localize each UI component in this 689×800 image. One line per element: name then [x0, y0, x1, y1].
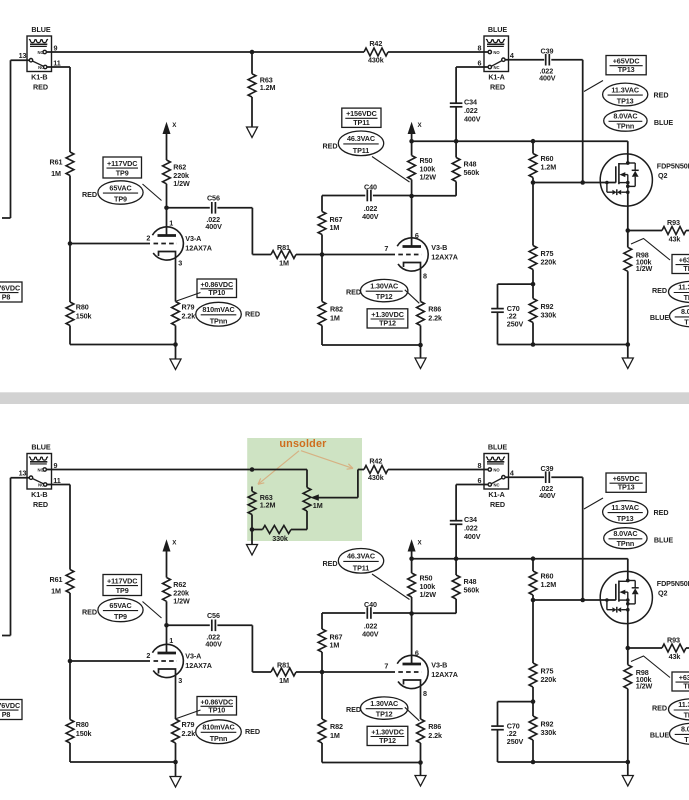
node B+ rail junction — [409, 556, 414, 561]
resistor R98 — [627, 648, 629, 665]
svg-text:150k: 150k — [76, 312, 92, 321]
svg-text:1.30VAC: 1.30VAC — [370, 699, 398, 708]
voltage callout +76VDC TP8 (cut off) — [0, 282, 22, 302]
resistor R67 — [321, 196, 323, 212]
svg-text:C39: C39 — [541, 46, 554, 55]
resistor R67 — [321, 613, 323, 629]
node gate rail junction 2 — [580, 180, 585, 185]
relay K1-A switch arm — [491, 478, 502, 484]
wire left edge jog — [2, 217, 11, 219]
wire pin 11 to R61 — [47, 484, 70, 486]
svg-text:TP9: TP9 — [114, 195, 127, 204]
ground R63 — [247, 127, 258, 138]
wire R48 bottom to plate node — [412, 195, 457, 197]
supply arrow X node — [163, 122, 171, 134]
node R92 ground junction — [531, 342, 536, 347]
wire R80 to ground rail — [69, 743, 71, 762]
node V3-A ground junction — [173, 760, 178, 765]
voltage callout +76VDC TP8 (cut off) — [0, 700, 22, 720]
svg-text:R61: R61 — [50, 575, 63, 584]
svg-text:8.0VAC: 8.0VAC — [681, 307, 689, 316]
wire ground rail right — [498, 761, 628, 763]
svg-text:8: 8 — [478, 43, 482, 52]
resistor R79 — [172, 719, 180, 743]
svg-text:Q2: Q2 — [658, 588, 667, 597]
wire R63 to ground — [251, 515, 253, 545]
triode V3-A envelope — [152, 227, 183, 260]
svg-text:TP11: TP11 — [353, 146, 369, 155]
svg-text:11.3VAC: 11.3VAC — [611, 503, 639, 512]
svg-text:1/2W: 1/2W — [420, 590, 437, 599]
wire R61 to grid node — [69, 176, 71, 244]
resistor R93 — [628, 647, 662, 649]
svg-text:7: 7 — [384, 661, 388, 670]
svg-text:TP13: TP13 — [617, 96, 634, 105]
svg-text:12AX7A: 12AX7A — [185, 244, 212, 253]
svg-text:FDP5N50N: FDP5N50N — [657, 162, 689, 171]
pointer 1.30VAC to cathode — [405, 707, 420, 721]
resistor R82 — [321, 672, 323, 719]
svg-text:R81: R81 — [277, 661, 290, 670]
svg-text:1M: 1M — [279, 676, 289, 685]
V3-B grid dashes pin 7 — [398, 671, 422, 673]
node gate rail junction 2 — [580, 598, 585, 603]
svg-text:1/2W: 1/2W — [173, 179, 190, 188]
Q2 gate bar — [615, 166, 617, 182]
svg-text:1M: 1M — [330, 314, 340, 323]
svg-text:13: 13 — [19, 469, 27, 478]
svg-text:+117VDC: +117VDC — [107, 576, 137, 585]
wire drain — [627, 141, 629, 164]
resistor R61 — [66, 152, 74, 176]
resistor R86 — [417, 719, 425, 743]
wire pin 4 to C39 — [505, 476, 544, 478]
V3-A plate bar pin 1 — [158, 234, 177, 237]
testpoint callout 46.3VAC TP11 — [338, 131, 383, 156]
triode V3-A envelope — [152, 644, 183, 677]
wire R62 to plate — [166, 184, 168, 236]
V3-A cathode pin 3 — [159, 252, 176, 302]
svg-text:X: X — [172, 122, 177, 129]
svg-text:TP10: TP10 — [208, 705, 225, 714]
svg-text:1/2W: 1/2W — [636, 682, 653, 691]
svg-text:V3-B: V3-B — [431, 243, 447, 252]
wire pin 6 to C34 — [456, 484, 488, 486]
separator band — [0, 392, 689, 404]
Q2 source vertical — [627, 175, 629, 193]
svg-text:11.3VAC: 11.3VAC — [678, 283, 689, 292]
svg-text:1.2M: 1.2M — [260, 500, 276, 509]
svg-text:V3-A: V3-A — [185, 234, 201, 243]
relay K1-B switch arm — [32, 479, 43, 484]
svg-text:NC: NC — [493, 483, 499, 488]
node V3-A plate junction — [164, 206, 169, 211]
wire R86 to ground rail — [420, 326, 422, 346]
node V3-B ground junction — [418, 343, 423, 348]
svg-text:43k: 43k — [669, 235, 681, 244]
svg-text:1.2M: 1.2M — [541, 163, 557, 172]
wire gate rail — [533, 182, 616, 184]
wire B+ rail — [412, 558, 628, 560]
testpoint callout 1.30VAC TP12 — [361, 279, 408, 301]
svg-text:11.3VAC: 11.3VAC — [678, 700, 689, 709]
svg-text:150k: 150k — [76, 729, 92, 738]
svg-text:2: 2 — [146, 651, 150, 660]
resistor R82 — [321, 255, 323, 302]
svg-text:13: 13 — [19, 51, 27, 60]
svg-text:BLUE: BLUE — [654, 535, 673, 544]
relay K1-B — [27, 454, 52, 490]
resistor R93 — [628, 230, 662, 232]
svg-text:400V: 400V — [205, 640, 222, 649]
pointer 46.3VAC to R50 bottom — [372, 157, 410, 183]
node C34 junction — [454, 556, 459, 561]
Q2 channel bar — [618, 581, 620, 602]
wire R86 to ground rail — [420, 743, 422, 763]
svg-text:4: 4 — [510, 468, 514, 477]
wire plate node to C56 — [167, 207, 210, 209]
potentiometer 1M body — [303, 488, 311, 512]
svg-text:TPnn: TPnn — [210, 317, 228, 326]
wire plate node down — [411, 597, 413, 664]
svg-text:2.2k: 2.2k — [182, 729, 196, 738]
svg-text:430k: 430k — [368, 56, 384, 65]
Q2 gate protection zener — [605, 181, 609, 185]
wire ground rail right — [498, 344, 628, 346]
svg-text:76VDC: 76VDC — [0, 701, 20, 710]
relay K1-A NO contact pin 8 — [488, 50, 491, 53]
svg-text:3: 3 — [178, 676, 182, 685]
svg-text:C40: C40 — [364, 182, 377, 191]
pointer +0.86VDC to cathode — [177, 293, 201, 302]
resistor R42 — [364, 48, 388, 56]
svg-text:R79: R79 — [182, 720, 195, 729]
wire grid node to V3-A grid — [70, 660, 150, 662]
wire left edge jog — [2, 635, 11, 637]
svg-text:R80: R80 — [76, 303, 89, 312]
svg-text:12AX7A: 12AX7A — [431, 253, 458, 262]
svg-text:RED: RED — [652, 703, 667, 712]
relay K1-A common contact pin 4 — [502, 58, 505, 61]
svg-text:11.3VAC: 11.3VAC — [611, 85, 639, 94]
svg-text:330k: 330k — [541, 310, 557, 319]
V3-B plate bar pin 6 — [403, 245, 422, 248]
node C70 junction — [531, 282, 536, 287]
wire R48 bottom to plate node — [412, 612, 457, 614]
wire left edge down — [10, 478, 12, 636]
ground V3-A — [175, 345, 177, 360]
svg-text:220k: 220k — [541, 675, 557, 684]
svg-text:NC: NC — [493, 65, 499, 70]
svg-text:6: 6 — [415, 231, 419, 240]
transistor Q2 envelope — [600, 154, 652, 206]
svg-text:R93: R93 — [667, 636, 680, 645]
pointer +63VDC to source node — [631, 656, 670, 678]
annotation arrow to R42 — [301, 451, 353, 469]
svg-text:810mVAC: 810mVAC — [202, 305, 234, 314]
svg-text:TP13: TP13 — [618, 65, 635, 74]
resistor R42 — [364, 466, 388, 474]
svg-text:TP12: TP12 — [379, 318, 396, 327]
svg-text:2.2k: 2.2k — [428, 314, 442, 323]
wire pin 4 to C39 — [505, 59, 544, 61]
svg-text:R82: R82 — [330, 722, 343, 731]
svg-text:+117VDC: +117VDC — [107, 159, 137, 168]
node B+ rail junction — [409, 139, 414, 144]
svg-text:400V: 400V — [539, 74, 556, 83]
svg-text:TP13: TP13 — [684, 710, 689, 719]
node R98 ground junction — [626, 342, 631, 347]
svg-text:RED: RED — [652, 286, 667, 295]
resistor R48 — [455, 141, 457, 157]
V3-B cathode pin 8 — [404, 680, 421, 719]
wire C56 to R81 — [217, 624, 252, 626]
svg-text:P8: P8 — [2, 710, 11, 719]
testpoint callout 8.0VAC TPnn — [604, 528, 647, 549]
svg-text:1.2M: 1.2M — [541, 580, 557, 589]
svg-text:1.2M: 1.2M — [260, 83, 276, 92]
Q2 source arm — [619, 599, 628, 601]
svg-text:R80: R80 — [76, 720, 89, 729]
svg-text:2: 2 — [146, 234, 150, 243]
svg-text:RED: RED — [33, 500, 48, 509]
resistor R60 — [532, 141, 534, 153]
svg-text:RED: RED — [490, 82, 505, 91]
resistor R98 — [627, 231, 629, 248]
svg-text:2.2k: 2.2k — [428, 731, 442, 740]
svg-text:1: 1 — [169, 636, 173, 645]
svg-text:1M: 1M — [51, 586, 61, 595]
node gate rail junction 1 — [531, 598, 536, 603]
svg-text:C56: C56 — [207, 193, 220, 202]
svg-text:12AX7A: 12AX7A — [431, 670, 458, 679]
svg-text:8.0VAC: 8.0VAC — [681, 725, 689, 734]
svg-text:TPnn: TPnn — [617, 122, 635, 131]
wire rail to pot top — [306, 470, 308, 488]
node R63 tap junction — [250, 50, 255, 55]
Q2 body arrow — [619, 172, 625, 177]
svg-text:X: X — [418, 540, 423, 547]
triode V3-B envelope — [397, 655, 428, 688]
svg-text:46.3VAC: 46.3VAC — [347, 552, 375, 561]
wire pot bottom — [306, 511, 308, 530]
relay K1-B common contact pin 13 — [29, 476, 32, 479]
voltage callout +65VDC TP13 — [606, 56, 646, 75]
node R60 top junction — [531, 556, 536, 561]
svg-text:RED: RED — [33, 82, 48, 91]
svg-text:RED: RED — [654, 508, 669, 517]
resistor R79 — [172, 302, 180, 326]
svg-text:NO: NO — [493, 50, 500, 55]
svg-text:NO: NO — [493, 468, 500, 473]
relay K1-A — [484, 36, 509, 72]
wire R61 to grid node — [69, 593, 71, 661]
relay K1-A — [484, 454, 509, 490]
svg-text:K1-B: K1-B — [31, 73, 47, 82]
svg-text:8: 8 — [478, 461, 482, 470]
svg-text:TP11: TP11 — [353, 564, 369, 573]
svg-text:9: 9 — [54, 43, 58, 52]
svg-text:65VAC: 65VAC — [109, 183, 131, 192]
svg-text:430k: 430k — [368, 473, 384, 482]
ground right section — [627, 762, 629, 776]
wire 330k to pot — [291, 529, 307, 531]
svg-text:400V: 400V — [464, 114, 481, 123]
node R92 ground junction — [531, 760, 536, 765]
svg-text:8.0VAC: 8.0VAC — [613, 112, 637, 121]
wire C56 to R81 — [217, 207, 252, 209]
testpoint callout 8.0VAC TPnn — [604, 110, 647, 131]
wire R79 to ground rail — [175, 743, 177, 762]
resistor R63 — [248, 74, 256, 97]
resistor R60 — [532, 559, 534, 571]
relay K1-B switch arm — [32, 61, 43, 66]
wire main rail left — [46, 51, 364, 53]
wire main rail right — [388, 51, 488, 53]
testpoint callout 11.3VAC (cut off) — [669, 281, 689, 302]
node gate rail junction 1 — [531, 180, 536, 185]
supply arrow X node 2 — [408, 122, 416, 134]
wire R79 to ground rail — [175, 326, 177, 345]
testpoint callout 8.0VAC (cut off) — [670, 723, 689, 744]
svg-text:TP13: TP13 — [618, 483, 635, 492]
wire B+ rail — [412, 140, 628, 142]
Q2 gate protection zener — [605, 598, 609, 602]
capacitor C56 — [211, 202, 213, 214]
voltage callout +156VDC TP11 — [342, 108, 381, 127]
resistor R81 — [271, 668, 296, 676]
svg-text:K1-A: K1-A — [488, 490, 504, 499]
Q2 source arm — [619, 182, 628, 184]
resistor R50 — [411, 141, 413, 155]
pointer +63VDC to source node — [631, 239, 670, 261]
svg-text:BLUE: BLUE — [650, 731, 669, 740]
node rail tap junction — [250, 467, 255, 472]
transistor Q2 envelope — [600, 571, 652, 623]
svg-text:4: 4 — [510, 51, 514, 60]
V3-B plate bar pin 6 — [403, 663, 422, 666]
svg-text:C39: C39 — [541, 464, 554, 473]
svg-text:250V: 250V — [507, 319, 524, 328]
svg-text:1/2W: 1/2W — [173, 597, 190, 606]
voltage callout +1.30VDC TP12 — [367, 726, 408, 745]
svg-text:330k: 330k — [272, 534, 288, 543]
node drain junction — [626, 161, 630, 165]
Q2 body diode — [628, 162, 635, 164]
wire source down — [627, 192, 629, 230]
relay K1-A switch arm — [491, 61, 502, 67]
wire grid node to V3-B grid — [322, 671, 395, 673]
svg-text:R93: R93 — [667, 218, 680, 227]
relay K1-A common contact pin 4 — [502, 476, 505, 479]
resistor 330k added — [263, 526, 292, 534]
testpoint callout 65VAC TP9 — [98, 181, 143, 204]
V3-B grid dashes pin 7 — [398, 254, 422, 256]
resistor R75 — [532, 600, 534, 663]
ground right section — [627, 345, 629, 359]
node V3-B ground junction — [418, 760, 423, 765]
wire grid node to V3-A grid — [70, 243, 150, 245]
svg-text:7: 7 — [384, 244, 388, 253]
svg-text:unsolder: unsolder — [279, 438, 327, 450]
svg-text:TP10: TP10 — [208, 288, 225, 297]
ground V3-B — [420, 345, 422, 358]
svg-text:1.30VAC: 1.30VAC — [370, 281, 398, 290]
V3-A plate bar pin 1 — [158, 652, 177, 655]
svg-text:BLUE: BLUE — [650, 313, 669, 322]
svg-text:TP9: TP9 — [116, 168, 129, 177]
voltage callout +117VDC TP9 — [103, 157, 142, 178]
svg-text:400V: 400V — [464, 532, 481, 541]
wire C39 to gate rail — [551, 59, 582, 61]
svg-text:6: 6 — [415, 649, 419, 658]
svg-text:1: 1 — [169, 219, 173, 228]
wire pin 6 to C34 — [456, 66, 488, 68]
svg-text:BLUE: BLUE — [654, 118, 673, 127]
capacitor C34 — [455, 67, 457, 103]
wire gate rail — [533, 599, 616, 601]
svg-text:TP13: TP13 — [617, 514, 634, 523]
wire R81 to V3-B grid node — [296, 671, 322, 673]
resistor R62 — [163, 578, 171, 602]
svg-text:X: X — [172, 540, 177, 547]
svg-text:R82: R82 — [330, 305, 343, 314]
wire grid node to V3-B grid — [322, 254, 395, 256]
capacitor C40 — [322, 195, 365, 197]
svg-text:TP12: TP12 — [376, 710, 393, 719]
testpoint callout 11.3VAC TP13 — [603, 83, 648, 106]
svg-text:43k: 43k — [669, 652, 681, 661]
triode V3-B envelope — [397, 238, 428, 271]
svg-text:C40: C40 — [364, 600, 377, 609]
node V3-B plate junction — [409, 611, 414, 616]
svg-text:2.2k: 2.2k — [182, 312, 196, 321]
voltage callout +63VDC TPnn (cut off) — [672, 672, 689, 691]
svg-text:TPnn: TPnn — [684, 735, 689, 744]
svg-text:1M: 1M — [330, 223, 340, 232]
Q2 body arrow — [619, 590, 625, 595]
svg-text:BLUE: BLUE — [31, 25, 50, 34]
wire left edge down — [10, 60, 12, 218]
svg-text:12AX7A: 12AX7A — [185, 661, 212, 670]
relay K1-A NC contact pin 6 — [488, 65, 491, 68]
wire ground rail V3-B — [322, 762, 421, 764]
Q2 body diode — [628, 580, 635, 582]
testpoint callout 65VAC TP9 — [98, 598, 143, 621]
svg-text:TP12: TP12 — [376, 292, 393, 301]
svg-text:P8: P8 — [2, 292, 11, 301]
svg-text:R86: R86 — [428, 305, 441, 314]
wire grid node to R80 — [69, 661, 71, 720]
svg-text:BLUE: BLUE — [488, 442, 507, 451]
svg-text:TP12: TP12 — [379, 736, 396, 745]
svg-text:R81: R81 — [277, 243, 290, 252]
Q2 drain arm — [619, 163, 628, 165]
wire source down — [627, 610, 629, 648]
voltage callout +63VDC TPnn (cut off) — [672, 255, 689, 274]
node grid V3-A junction — [68, 659, 73, 664]
Q2 source vertical — [627, 592, 629, 610]
V3-A cathode pin 3 — [159, 669, 176, 719]
svg-text:V3-B: V3-B — [431, 661, 447, 670]
testpoint callout 810mVAC TPnn — [196, 720, 242, 744]
node grid V3-A junction — [68, 241, 73, 246]
svg-text:TP9: TP9 — [114, 612, 127, 621]
svg-text:400V: 400V — [205, 222, 222, 231]
svg-text:46.3VAC: 46.3VAC — [347, 134, 375, 143]
svg-text:1M: 1M — [330, 640, 340, 649]
pointer 46.3VAC to R50 bottom — [372, 574, 410, 600]
